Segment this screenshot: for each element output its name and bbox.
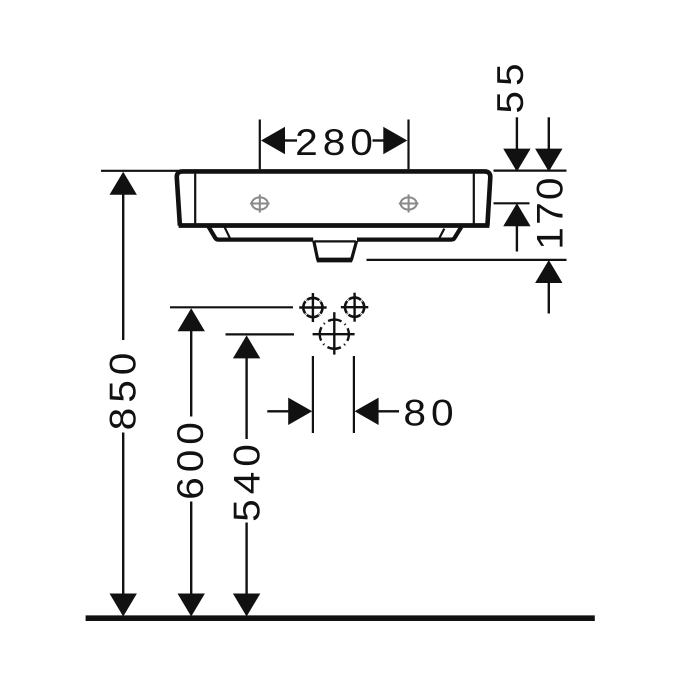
dim 850 line upper	[122, 193, 124, 340]
dim 80 extension line right	[353, 356, 355, 433]
lip inner slant right	[438, 229, 444, 241]
svg-text:600: 600	[171, 417, 212, 500]
drain top opening line	[315, 240, 356, 242]
dim 80 extension line left	[312, 356, 314, 433]
dim 55 extension line A (rim level)	[494, 170, 567, 172]
drain bottom thick edge	[317, 258, 352, 263]
faucet hole mark right (gray crosshair)	[399, 194, 419, 212]
svg-text:280: 280	[295, 122, 378, 163]
floor line	[86, 615, 595, 621]
dim 850 line lower	[122, 433, 124, 597]
dim 280 arrow left	[261, 127, 285, 154]
dim 55 lower tail	[516, 225, 518, 252]
dim 600 extension line	[170, 306, 293, 308]
dim 540 arrow down	[233, 594, 260, 617]
drain trapezoid	[314, 241, 357, 260]
dim 850 arrow down	[110, 594, 137, 617]
dim 55 arrow up	[503, 203, 530, 226]
svg-text:55: 55	[491, 58, 532, 113]
dim 170 lower tail	[548, 282, 550, 314]
dim 540 line lower	[245, 523, 247, 597]
svg-text:80: 80	[403, 393, 458, 434]
dim 80 arrow pointing right	[288, 398, 312, 425]
svg-text:850: 850	[103, 348, 144, 431]
faucet hole mark left (gray crosshair)	[250, 194, 270, 212]
dim 600 arrow up	[178, 308, 205, 331]
dim 170 arrow down	[535, 149, 562, 172]
basin under lip outline	[208, 226, 461, 239]
dim 280 extension line right	[407, 120, 409, 170]
dim 80 tail left	[267, 410, 289, 412]
basin inner wall right	[473, 174, 475, 224]
dim 55 arrow down	[503, 149, 530, 172]
washbasin bottom edge	[179, 223, 490, 228]
tap hole crosshair left	[299, 306, 326, 308]
dim 600 line upper	[190, 330, 192, 417]
dim 540 extension line	[226, 333, 295, 335]
dim 850 top extension line	[101, 170, 180, 172]
dim 600 arrow down	[178, 594, 205, 617]
basin inner wall left	[194, 174, 196, 224]
dim 80 tail right	[378, 410, 400, 412]
svg-text:540: 540	[227, 439, 268, 522]
drain circle (dash-dot)	[320, 320, 349, 349]
dim 55 extension line B (hole level)	[494, 202, 530, 204]
svg-text:170: 170	[530, 175, 571, 249]
dim 170 upper tail	[548, 117, 550, 150]
washbasin rim outline (top + sides)	[177, 171, 491, 225]
dim 850 arrow up	[110, 172, 137, 195]
dim 540 line upper	[245, 357, 247, 439]
dim 280 line stubs	[283, 139, 297, 141]
tap hole crosshair right	[341, 306, 368, 308]
drain circle crosshair	[313, 333, 355, 335]
dim 540 arrow up	[233, 335, 260, 358]
dim 280 extension line left	[259, 120, 261, 170]
tap hole circle left	[303, 298, 322, 317]
dim 55 upper tail	[516, 117, 518, 150]
dim 170 arrow up	[535, 260, 562, 283]
dim 80 arrow pointing left	[355, 398, 379, 425]
dim 170 extension line C (drain bottom level)	[367, 259, 567, 261]
dim 600 line lower	[190, 502, 192, 597]
tap hole circle right	[345, 298, 364, 317]
lip inner slant left	[225, 227, 232, 241]
dim 280 arrow right	[383, 127, 407, 154]
